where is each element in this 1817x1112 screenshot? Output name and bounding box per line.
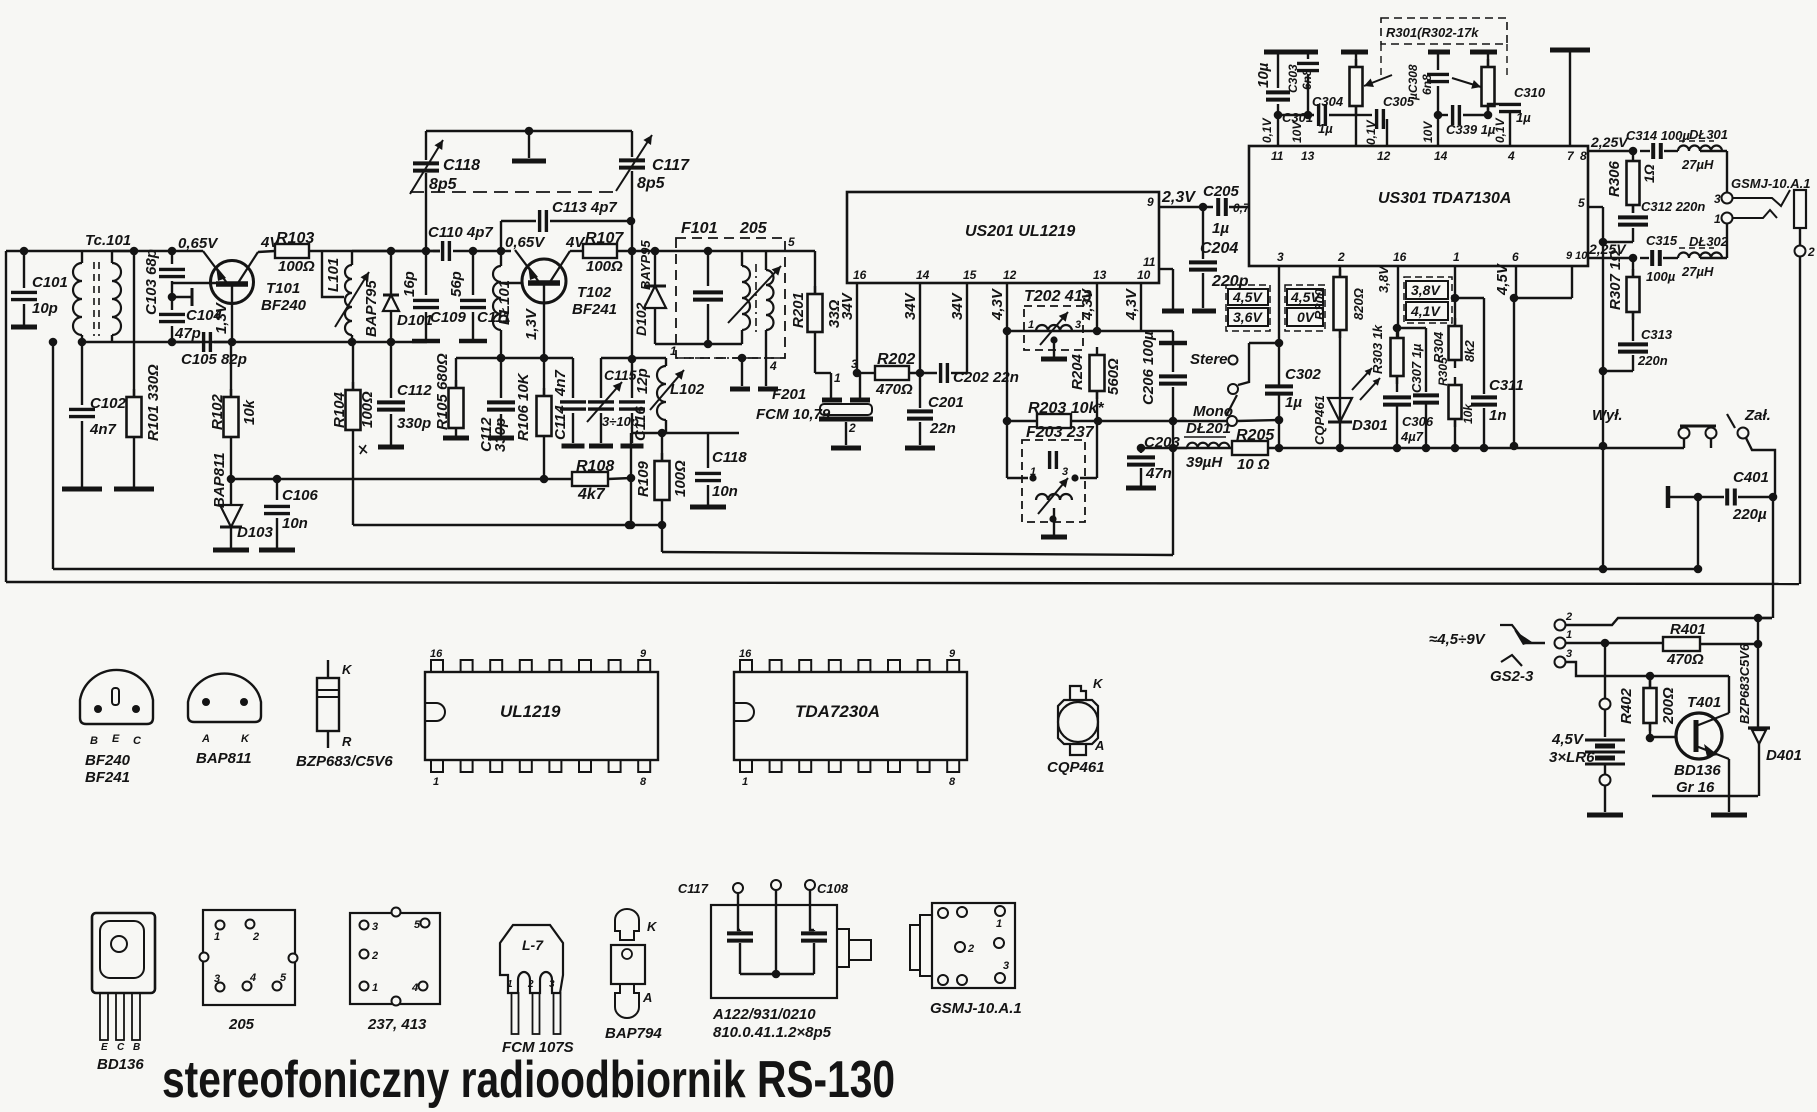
inductor F101 secondary [766, 270, 774, 330]
wire D103 lead [230, 479, 232, 505]
wire left border down [5, 251, 7, 582]
wire C313 link [1603, 370, 1633, 372]
wire C118 drop [425, 173, 427, 251]
wire C308 v [1437, 52, 1439, 70]
label C112b [478, 417, 495, 452]
node J55 [1599, 442, 1608, 451]
pkg CQP461 tab bot [1070, 744, 1086, 755]
F101 tap line [676, 357, 785, 359]
label R402 val [1660, 687, 1677, 725]
node J59 [1393, 324, 1402, 333]
ground C203 gnd [1126, 486, 1156, 491]
wire R203 l [1006, 331, 1008, 421]
capacitor C315 100µ [1652, 250, 1660, 266]
svg-text:R306: R306 [1606, 160, 1623, 197]
terminal 205 p5 [273, 982, 282, 991]
svg-text:2: 2 [371, 950, 378, 962]
label 205 5 [280, 972, 287, 984]
wire sup link [1514, 297, 1572, 299]
wire pin11 v [1172, 269, 1174, 309]
svg-text:1Ω: 1Ω [1641, 164, 1657, 183]
svg-text:10µ: 10µ [1255, 62, 1272, 88]
terminal 237 bot [392, 997, 401, 1006]
label C301 [1282, 110, 1313, 125]
pkg 205 box [203, 910, 295, 1005]
svg-text:BAP795: BAP795 [363, 280, 380, 337]
svg-text:K: K [342, 662, 353, 677]
wire DL101 bot [500, 330, 502, 358]
label 237 3 [372, 921, 378, 933]
node A122 dot [772, 970, 781, 979]
wire R305 drop [1454, 419, 1456, 448]
capacitor C103 68p [159, 269, 185, 276]
label DŁ301 [1689, 127, 1728, 142]
resistor R106 [537, 388, 552, 444]
pkg TDA7230A body [734, 672, 967, 760]
label R301R302 [1386, 25, 1479, 40]
label DŁ301 val [1681, 157, 1714, 172]
label C303 [1286, 64, 1300, 93]
svg-text:1µ: 1µ [1516, 110, 1531, 125]
svg-text:13: 13 [1301, 149, 1315, 163]
svg-text:6: 6 [1512, 250, 1519, 264]
label C339 1µ [1446, 122, 1496, 137]
resistor R105 [449, 380, 464, 436]
svg-text:3,8V: 3,8V [1376, 265, 1391, 293]
capacitor C202 22n [941, 363, 948, 383]
ground R101 gnd [114, 487, 154, 492]
diode D301 LED [1328, 398, 1352, 422]
label 205 4 [249, 972, 256, 984]
DŁ301 core [1679, 140, 1714, 142]
node J23a [628, 355, 637, 364]
wire gang top [426, 130, 632, 132]
wire R108 out [608, 478, 631, 479]
label C102 [90, 395, 127, 412]
svg-text:4k7: 4k7 [577, 486, 606, 503]
label L102 [670, 381, 705, 398]
label 205 lbl [228, 1016, 255, 1033]
node J70 [1754, 640, 1763, 649]
label R305 [1436, 357, 1450, 386]
label vbox1 at [1232, 289, 1263, 305]
node J68 [1754, 614, 1763, 623]
svg-text:1: 1 [1028, 319, 1034, 331]
svg-text:C401: C401 [1733, 469, 1769, 486]
svg-text:D101: D101 [397, 312, 433, 329]
pkg GSMJ lug1 [920, 915, 932, 976]
svg-text:B: B [133, 1042, 140, 1053]
wire D103 lead2 [230, 527, 232, 548]
pkg BAP794 bot [615, 984, 639, 1018]
svg-text:810.0.41.1.2×8p5: 810.0.41.1.2×8p5 [713, 1024, 832, 1041]
wire F203 tap [1053, 508, 1055, 535]
capacitor C304 1µ [1319, 104, 1326, 126]
wire mono line [1098, 420, 1227, 422]
capacitor C205 1µ [1218, 198, 1226, 216]
label R304 [1431, 331, 1446, 363]
label C117 [652, 157, 690, 174]
node J67 [1694, 565, 1703, 574]
wire agc rail [231, 478, 544, 480]
label pinb 1 US301 [1453, 250, 1460, 264]
svg-text:2: 2 [252, 931, 259, 943]
svg-text:C202 22n: C202 22n [953, 369, 1019, 386]
label BZP683 K [342, 662, 353, 677]
zal lever [1727, 414, 1735, 428]
ground C112a gnd [378, 445, 404, 450]
wire L102 top [665, 358, 667, 366]
pkg A122 stub1 [837, 929, 849, 967]
label bat type [1549, 749, 1595, 766]
label C205 val [1212, 220, 1229, 237]
node BAP811 pinK [240, 698, 248, 706]
capacitor C110 4p7 [443, 241, 450, 261]
terminal wyl b [1706, 428, 1717, 439]
wire C206 bus drop [1172, 448, 1174, 555]
wire D102 lead2 [654, 308, 656, 344]
wire C112b lead2 [500, 414, 502, 436]
label R201 [790, 292, 807, 328]
label C111 56p [448, 271, 465, 297]
label f101 pin1 [670, 344, 677, 358]
inductor L102 [657, 366, 666, 420]
ground C112b gnd [488, 436, 514, 441]
label R102 val [241, 399, 258, 425]
node J14 [422, 247, 431, 256]
label pin 10 US201 [1137, 268, 1151, 282]
svg-text:47p: 47p [174, 325, 201, 342]
wire C204 lead [1202, 207, 1204, 259]
svg-text:4,5V: 4,5V [1551, 731, 1585, 748]
wire C110 r [453, 250, 473, 252]
wire f101 gnd2 stem [765, 358, 767, 386]
arrow R302 wiper [1452, 78, 1481, 89]
label pinb 2 US301 [1337, 250, 1345, 264]
C109 bar [412, 339, 440, 344]
wire C301 v [1277, 52, 1279, 88]
wire A122 w3 [813, 943, 815, 974]
label 205 1 [214, 931, 220, 943]
label C313 val [1637, 353, 1668, 368]
label A122 C108 [817, 881, 849, 896]
svg-text:UL1219: UL1219 [500, 702, 561, 721]
box T202 [1024, 306, 1083, 350]
pkg BD136 body [92, 913, 155, 993]
vbox3 b [1406, 302, 1448, 320]
svg-text:DŁ101: DŁ101 [496, 280, 513, 325]
wire C202 out [951, 372, 967, 374]
wire BZP683 lead K [327, 660, 329, 678]
svg-text:B: B [90, 735, 98, 747]
svg-text:237, 413: 237, 413 [367, 1016, 427, 1033]
label BD136 lbl [97, 1056, 144, 1073]
label f201 pin3 [851, 357, 858, 371]
svg-text:D103: D103 [237, 524, 274, 541]
wire T401 coll [1728, 676, 1730, 713]
node J34 [1003, 327, 1012, 336]
wire C305 v [1386, 119, 1388, 146]
label spk3 [1714, 192, 1721, 206]
svg-text:200Ω: 200Ω [1660, 687, 1677, 725]
node J18 [497, 247, 506, 256]
label F203 237 [1026, 424, 1095, 441]
terminal wyl a [1679, 428, 1690, 439]
wire C112a lead2 [390, 414, 392, 445]
svg-text:C118: C118 [712, 449, 747, 466]
label pin 16 US201 [853, 268, 867, 282]
node T202 tapdot [1050, 336, 1057, 343]
wire L101 top [351, 251, 353, 265]
inductor T202 coil [1036, 325, 1072, 331]
inductor F203 coil [1036, 494, 1072, 500]
svg-text:BAP811: BAP811 [211, 452, 228, 508]
label R106 10K [515, 372, 532, 441]
terminal spk t3 [1722, 193, 1733, 204]
node J37b [1169, 417, 1178, 426]
terminal GSMJ c5 [994, 938, 1004, 948]
label 43V c [1123, 287, 1140, 321]
node J9 [227, 475, 236, 484]
label BD136 leg lbl B [133, 1042, 140, 1053]
label 205 2 [252, 931, 259, 943]
capacitor C306 4µ7 [1383, 397, 1411, 404]
wire R402 lead [1649, 676, 1651, 688]
wire bus L2 [661, 525, 663, 552]
label R103 val [278, 258, 315, 275]
label R103 [276, 230, 314, 247]
node J5 [168, 247, 177, 256]
label C305 [1383, 94, 1415, 109]
wire R307 C313 [1632, 312, 1634, 341]
label 0,65V b [505, 234, 546, 251]
wire R103 out [309, 250, 440, 252]
label pinb 16 US301 [1393, 250, 1407, 264]
svg-text:stereofoniczny radioodbiornik: stereofoniczny radioodbiornik RS-130 [162, 1051, 895, 1109]
label C203 val [1145, 465, 1172, 482]
terminal GSMJ c1 [938, 908, 948, 918]
label DŁ201 val [1186, 454, 1223, 471]
svg-text:L-7: L-7 [522, 937, 544, 953]
svg-text:C117: C117 [652, 157, 690, 174]
sw lever [1226, 395, 1237, 416]
capacitor A122 cap1 [727, 933, 753, 940]
wire C102 lead [81, 342, 83, 405]
svg-text:5: 5 [788, 235, 795, 249]
wire C312 v [1632, 228, 1634, 242]
svg-text:330p: 330p [397, 415, 431, 432]
svg-text:C205: C205 [1203, 183, 1240, 200]
wire f101 prim bot [741, 330, 743, 344]
node J37 [1094, 417, 1103, 426]
label D103 [237, 524, 274, 541]
label BD136 leg lbl C [117, 1042, 125, 1053]
label pin 4 US301 [1507, 149, 1515, 163]
wire D401 v2 [1758, 744, 1760, 796]
wire C117t lead [631, 131, 633, 157]
capacitor C401 220µ [1727, 489, 1735, 506]
wire C114 lead2 [572, 413, 574, 443]
label 4V [260, 234, 281, 251]
wire R302 v2 [1487, 106, 1489, 115]
pkg BAP794 eye [622, 949, 632, 959]
label pin 14 US201 [916, 268, 930, 282]
wire C401 r [1738, 496, 1773, 498]
wire C311 v2 [1483, 408, 1485, 448]
wire T102 base drop [543, 283, 545, 358]
ground gang gnd [512, 159, 546, 164]
ground F101 gnd2 [758, 387, 778, 392]
wire C339 w [1438, 114, 1448, 116]
svg-text:R205: R205 [1236, 427, 1275, 444]
svg-text:R203 10k*: R203 10k* [1028, 400, 1104, 417]
label 10V b [1421, 121, 1435, 143]
label t202 p3 [1075, 319, 1081, 331]
svg-text:205: 205 [739, 220, 768, 237]
label A122 lbl2 [713, 1024, 832, 1041]
label C310 val [1516, 110, 1531, 125]
wire bus L1 [353, 524, 662, 526]
label CQP461 K [1093, 676, 1104, 691]
svg-text:3: 3 [1075, 319, 1081, 331]
wire L101 bot [351, 335, 353, 342]
label pin15 US301 [1251, 203, 1265, 217]
wire f101 top [655, 250, 785, 252]
capacitor C102 4n7 [69, 409, 95, 416]
wire base drop2 [500, 251, 502, 266]
svg-text:D401: D401 [1766, 747, 1802, 764]
wire f101 bottom [655, 343, 742, 345]
svg-text:R107: R107 [585, 230, 624, 247]
wire R107 out [617, 250, 655, 252]
svg-text:R101 330Ω: R101 330Ω [145, 364, 162, 441]
node J38 [1199, 203, 1208, 212]
svg-text:330p: 330p [492, 418, 509, 452]
wire rail L101 D101 [352, 250, 440, 252]
svg-text:A122/931/0210: A122/931/0210 [712, 1006, 816, 1023]
label 43V b [1079, 287, 1096, 321]
wire f101 gnd1 stem [741, 358, 743, 386]
wire rail331 [1007, 330, 1173, 332]
terminal bat c1 [1600, 699, 1611, 710]
svg-text:1: 1 [433, 776, 439, 788]
node J3 [78, 338, 87, 347]
svg-text:E: E [112, 733, 120, 745]
vbox2 outer [1285, 285, 1325, 331]
pkg BD136 leg C [116, 993, 124, 1040]
capacitor C313 220n [1618, 344, 1648, 351]
svg-text:8p5: 8p5 [429, 176, 458, 193]
svg-text:Zał.: Zał. [1744, 407, 1771, 424]
label R107 [585, 230, 624, 247]
wire rail T101 to R103 [258, 251, 275, 252]
wire C312 link [1603, 241, 1633, 243]
node J10 [273, 475, 282, 484]
label BF240 C [133, 735, 142, 747]
label C311 [1489, 377, 1524, 394]
wire pin910 wire [1588, 257, 1633, 259]
label vbox3 at [1411, 282, 1441, 298]
wire pin5 wire [1588, 206, 1603, 208]
label BAP794 A [642, 990, 652, 1005]
label UL1219 name [500, 702, 561, 721]
svg-text:Wył.: Wył. [1592, 407, 1623, 424]
label spk2 [1807, 245, 1815, 259]
wire L102 link [632, 357, 666, 359]
terminal spk t2 [1795, 246, 1806, 257]
terminal 237 p2 [360, 950, 369, 959]
wire R201 lead2 [814, 340, 816, 373]
label FCM leg lbl 3 [549, 979, 555, 990]
label BD136 [1674, 762, 1721, 779]
wire F201 out [859, 373, 861, 400]
label C106 val [282, 515, 308, 532]
wire bat v3 [1604, 764, 1606, 774]
R301 dash v [1380, 44, 1382, 80]
label 34V a [839, 291, 856, 320]
svg-text:0,65V: 0,65V [178, 235, 219, 252]
label f203 p1 [1030, 466, 1036, 478]
svg-text:4µ7: 4µ7 [1400, 429, 1424, 444]
wire gnd stem t401 [1728, 796, 1730, 812]
node J30 [704, 340, 713, 349]
label R101 330Ω [145, 364, 162, 441]
wire A122 lead1 [738, 893, 740, 930]
wire C307 link [1397, 327, 1426, 329]
svg-text:GS2-3: GS2-3 [1490, 668, 1534, 685]
label BZP683 lbl [296, 753, 393, 770]
label R202 val [875, 381, 913, 398]
terminal GSMJ c3 [995, 906, 1005, 916]
svg-text:R105 680Ω: R105 680Ω [434, 353, 451, 430]
svg-text:1µ: 1µ [1285, 394, 1302, 411]
label C117 val [637, 175, 666, 192]
resistor R401 [1663, 637, 1700, 651]
capacitor C106 10n [264, 506, 290, 513]
label 2,25V b [1588, 241, 1627, 257]
R302 dash v [1506, 44, 1508, 80]
label D401 [1766, 747, 1802, 764]
wire st wire2 [1238, 343, 1249, 385]
wire spk2 lead [1799, 228, 1801, 245]
node J42 [1275, 444, 1284, 453]
svg-text:R: R [342, 734, 352, 749]
label R109 val [672, 460, 689, 497]
svg-text:6n8: 6n8 [1300, 69, 1314, 90]
label C401 [1733, 469, 1769, 486]
svg-text:R402: R402 [1618, 687, 1635, 724]
label L101 [325, 258, 342, 292]
pkg FCM leg 1 [512, 993, 519, 1034]
wire bat v2 [1604, 710, 1606, 737]
vbox2 a [1287, 289, 1323, 305]
svg-text:4: 4 [411, 982, 418, 994]
resistor R201 [808, 286, 823, 340]
label C102 val [89, 421, 117, 438]
wire f101 sec bot [765, 330, 767, 358]
node J11 [387, 338, 396, 347]
node J69 [1601, 639, 1610, 648]
svg-text:16: 16 [853, 268, 867, 282]
label D101 [397, 312, 433, 329]
wire C204 lead2 [1202, 273, 1204, 308]
svg-text:R103: R103 [276, 230, 314, 247]
svg-text:4,5V: 4,5V [1232, 289, 1263, 305]
svg-text:0,1V: 0,1V [1260, 117, 1274, 143]
label C104 val [174, 325, 201, 342]
label R202 [877, 351, 915, 368]
node J16 [525, 127, 534, 136]
